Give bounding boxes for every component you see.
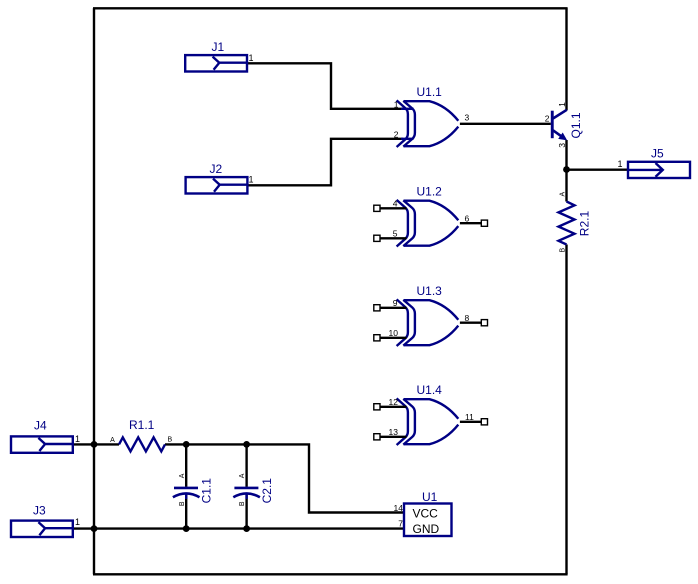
wire: U1.1 pin 3 to Q1.1 base	[460, 123, 551, 125]
svg-text:GND: GND	[413, 522, 440, 536]
svg-text:A: A	[559, 192, 566, 197]
svg-text:B: B	[167, 437, 172, 444]
svg-text:Q1.1: Q1.1	[569, 112, 583, 138]
svg-text:3: 3	[465, 113, 470, 123]
wire: C2.1 bottom	[245, 493, 247, 529]
pin 8 of U1.3	[460, 322, 481, 324]
resistor R2.1	[559, 202, 575, 245]
svg-text:6: 6	[465, 213, 470, 223]
wire: R1.1 B to U1 pin 14	[165, 444, 404, 512]
svg-text:2: 2	[545, 113, 550, 123]
wire: J2 to U1.1 pin 2	[247, 139, 403, 186]
wire: J4 through R1.1 A	[73, 443, 120, 445]
svg-text:1: 1	[618, 159, 623, 169]
svg-text:J3: J3	[33, 504, 46, 518]
svg-text:B: B	[239, 501, 246, 506]
transistor Q1.1	[551, 110, 583, 141]
pin 10 of U1.3	[380, 337, 407, 339]
junction: J3 net at C2.1	[243, 525, 250, 532]
svg-text:J1: J1	[212, 40, 225, 54]
resistor R1.1	[119, 437, 165, 451]
svg-text:R2.1: R2.1	[578, 211, 592, 237]
wire: top border	[93, 7, 568, 9]
pin 1 of U1.1 (internal stub)	[401, 108, 414, 110]
wire: left border	[93, 8, 95, 574]
svg-text:1: 1	[394, 99, 399, 109]
svg-text:4: 4	[393, 199, 398, 209]
junction: J3 net at C1.1	[183, 525, 190, 532]
pin 6 of U1.2	[460, 222, 481, 224]
svg-text:U1.1: U1.1	[417, 85, 443, 99]
svg-text:13: 13	[389, 427, 399, 437]
svg-text:1: 1	[557, 102, 567, 107]
connector J4	[11, 436, 73, 452]
svg-text:VCC: VCC	[413, 507, 439, 521]
XOR gate U1.4	[397, 398, 459, 445]
svg-text:2: 2	[394, 129, 399, 139]
svg-text:1: 1	[249, 53, 254, 63]
svg-text:B: B	[559, 247, 566, 252]
pin 9 of U1.3	[380, 307, 407, 309]
pin 12 of U1.4	[380, 406, 407, 408]
XOR gate U1.2	[397, 200, 459, 247]
svg-text:U1.2: U1.2	[417, 185, 443, 199]
connector J2	[186, 177, 248, 193]
XOR gate U1.3	[397, 299, 459, 346]
wire: J1 to U1.1 pin 1	[247, 63, 403, 109]
svg-text:U1.4: U1.4	[417, 383, 443, 397]
wire: right border upper (to Q1.1 collector)	[565, 8, 567, 110]
connector J5	[628, 162, 690, 178]
wire: Q1.1 emitter to node A of R2.1	[565, 140, 567, 202]
svg-text:A: A	[110, 437, 115, 444]
svg-text:8: 8	[465, 313, 470, 323]
wire: R2.1 B to bottom border	[565, 245, 567, 575]
junction: J4 net at C1.1	[183, 441, 190, 448]
svg-text:R1.1: R1.1	[129, 418, 155, 432]
svg-text:U1.3: U1.3	[417, 284, 443, 298]
pin 5 of U1.2	[380, 237, 407, 239]
svg-text:1: 1	[249, 175, 254, 185]
pin 13 of U1.4	[380, 436, 407, 438]
svg-text:7: 7	[398, 519, 403, 529]
junction: emitter / R2.1 / J5 node	[563, 166, 570, 173]
op XOR gate U1.1	[397, 100, 459, 147]
svg-text:U1: U1	[422, 490, 438, 504]
junction: J3 net at left border	[91, 525, 98, 532]
wire: C1.1 bottom	[185, 493, 187, 529]
connector J3	[11, 521, 73, 537]
svg-text:5: 5	[393, 229, 398, 239]
capacitor C2.1	[233, 488, 260, 499]
svg-text:J5: J5	[651, 147, 664, 161]
pin 4 of U1.2	[380, 207, 407, 209]
svg-text:C1.1: C1.1	[199, 478, 213, 504]
svg-text:J2: J2	[210, 162, 223, 176]
svg-text:1: 1	[75, 517, 80, 527]
svg-text:3: 3	[557, 143, 567, 148]
svg-text:14: 14	[394, 503, 404, 513]
wire: bottom border	[93, 573, 568, 575]
connector J1	[185, 55, 247, 71]
wire: J3 to U1 pin 7	[73, 527, 405, 529]
wire: C1.1 top	[185, 444, 187, 486]
svg-text:C2.1: C2.1	[260, 478, 274, 504]
wire: emitter node to J5	[567, 168, 629, 170]
svg-text:A: A	[179, 473, 186, 478]
svg-text:9: 9	[393, 298, 398, 308]
wire: C2.1 top	[245, 444, 247, 486]
junction: J4 net at C2.1	[243, 441, 250, 448]
svg-text:J4: J4	[34, 419, 47, 433]
svg-text:12: 12	[389, 397, 399, 407]
pin 2 of U1.1 (internal stub)	[401, 138, 414, 140]
power block U1	[404, 504, 452, 537]
junction: J4 net at left border	[91, 441, 98, 448]
svg-text:A: A	[239, 473, 246, 478]
pin 11 of U1.4	[460, 421, 481, 423]
svg-text:B: B	[179, 501, 186, 506]
svg-text:10: 10	[389, 328, 399, 338]
svg-text:1: 1	[75, 434, 80, 444]
capacitor C1.1	[173, 488, 200, 499]
svg-text:11: 11	[465, 412, 474, 422]
